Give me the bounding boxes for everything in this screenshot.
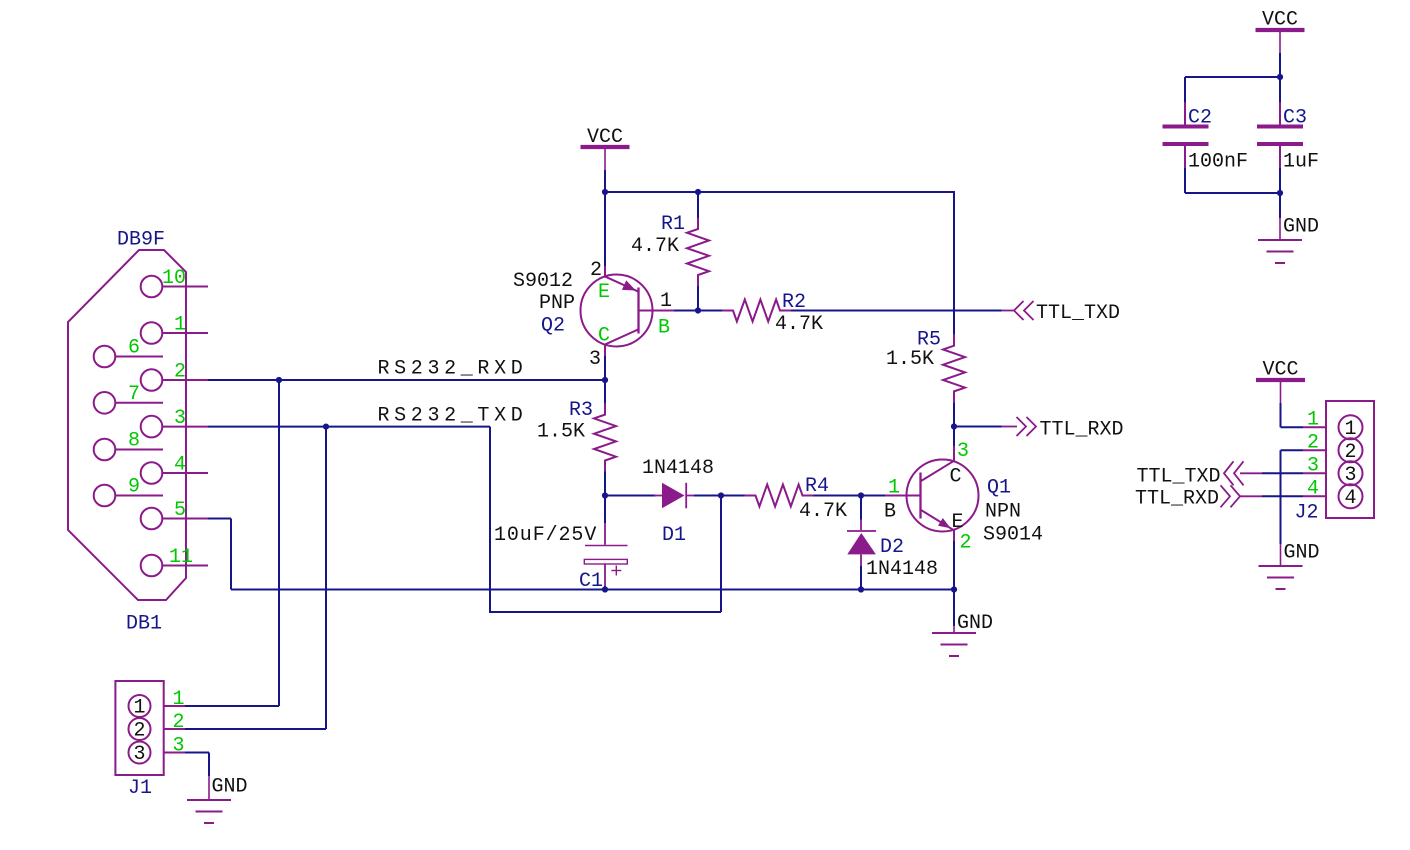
wire RS232_RXD	[208, 379, 605, 381]
svg-text:3: 3	[173, 735, 185, 758]
svg-text:Q1: Q1	[987, 477, 1011, 500]
wire Q2 emitter to rail	[604, 192, 606, 266]
junction	[695, 189, 701, 195]
svg-text:1.5K: 1.5K	[886, 348, 934, 371]
svg-text:GND: GND	[1284, 542, 1320, 565]
J1 pin 3	[129, 742, 151, 764]
TTL_RXD J2 lead	[1240, 495, 1262, 497]
svg-text:VCC: VCC	[1262, 9, 1298, 32]
svg-text:TTL_TXD: TTL_TXD	[1136, 466, 1220, 489]
svg-text:R3: R3	[569, 399, 593, 422]
svg-text:1N4148: 1N4148	[866, 558, 938, 581]
Q1 base pin	[885, 495, 907, 497]
Q1 emitter stub	[953, 530, 955, 543]
capacitor C3 (1uF)	[1279, 102, 1281, 125]
svg-text:TTL_TXD: TTL_TXD	[1036, 302, 1120, 325]
junction	[602, 377, 608, 383]
svg-text:4.7K: 4.7K	[799, 500, 847, 523]
svg-text:C: C	[598, 325, 610, 348]
svg-text:1: 1	[888, 477, 900, 500]
wire TTL_RXD stub	[954, 426, 1002, 428]
svg-text:1: 1	[1307, 409, 1319, 432]
svg-text:RS232_TXD: RS232_TXD	[378, 405, 528, 428]
wire R1 bottom lead	[697, 286, 699, 311]
wire D2 to ground rail	[860, 566, 862, 590]
wire Q1 emitter to ground rail	[953, 541, 955, 590]
transistor Q1 (S9014 NPN)	[907, 460, 979, 532]
wire R1 top lead	[697, 192, 699, 218]
svg-text:3: 3	[1307, 455, 1319, 478]
junction	[695, 307, 701, 313]
resistor R3	[594, 404, 616, 472]
DB1 pin 3	[141, 416, 163, 438]
wire Q2 collector node to R3	[604, 380, 606, 404]
ground (J2)	[1280, 544, 1282, 566]
wire R5 node to Q1 collector	[953, 427, 955, 447]
junction	[323, 424, 329, 430]
DB1 pin 7	[94, 392, 116, 414]
svg-text:1: 1	[660, 290, 672, 313]
junction	[602, 492, 608, 498]
TTL_TXD J2 lead	[1240, 472, 1262, 474]
connector J2 body	[1326, 401, 1374, 518]
svg-text:GND: GND	[957, 612, 993, 635]
DB1 pin 5	[141, 508, 163, 530]
wire D1 to R4 node	[694, 495, 721, 497]
wire J1 pin2 to TXD	[185, 728, 326, 730]
svg-text:3: 3	[133, 743, 145, 766]
svg-text:Q2: Q2	[541, 315, 565, 338]
wire R3 bottom lead	[604, 472, 606, 496]
svg-text:8: 8	[128, 430, 140, 453]
svg-text:NPN: NPN	[985, 501, 1021, 524]
wire J1 pin3 to GND	[185, 752, 209, 754]
svg-text:4: 4	[1307, 478, 1319, 501]
svg-text:C2: C2	[1188, 107, 1212, 130]
diode D1 (1N4148)	[654, 495, 662, 497]
svg-text:TTL_RXD: TTL_RXD	[1040, 419, 1124, 442]
svg-text:3: 3	[174, 407, 186, 430]
junction	[1277, 74, 1283, 80]
transistor Q2 (S9012 PNP)	[581, 275, 653, 347]
wire node down to D2	[860, 496, 862, 520]
J2 pin 1	[1339, 415, 1363, 439]
svg-text:2: 2	[173, 711, 185, 734]
power VCC (J2)	[1256, 378, 1305, 382]
ground (C2/C3)	[1279, 218, 1281, 240]
wire VCC stub	[604, 170, 606, 192]
wire VCC down	[1279, 53, 1281, 77]
wire Q2 collector down	[604, 356, 606, 380]
svg-text:7: 7	[128, 383, 140, 406]
Q2 base pin	[653, 310, 675, 312]
junction	[602, 189, 608, 195]
Q2 pin 2 stub	[604, 266, 606, 278]
svg-text:1: 1	[133, 697, 145, 720]
wire Q2 base to R1/R2 node	[674, 310, 698, 312]
svg-text:5: 5	[174, 499, 186, 522]
svg-text:3: 3	[957, 440, 969, 463]
wire Q1 gnd stub	[953, 590, 955, 627]
ground (J1)	[208, 776, 210, 800]
port TTL_TXD arrow	[1014, 301, 1034, 320]
svg-text:VCC: VCC	[587, 126, 623, 149]
svg-text:VCC: VCC	[1262, 359, 1298, 382]
svg-text:GND: GND	[212, 776, 248, 799]
wire C2 branch bottom	[1184, 168, 1186, 193]
svg-text:1.5K: 1.5K	[537, 421, 585, 444]
wire rail corner to R5	[953, 191, 955, 335]
wire node to D1	[605, 495, 656, 497]
svg-text:DB9F: DB9F	[117, 229, 165, 252]
svg-text:RS232_RXD: RS232_RXD	[378, 358, 528, 381]
svg-text:3: 3	[589, 348, 601, 371]
Q1 collector stub	[953, 446, 955, 461]
DB1 pin 4	[141, 462, 163, 484]
wire C1 to ground rail	[604, 586, 606, 590]
ground (below Q1)	[953, 626, 955, 633]
wire R4 to D2 node	[814, 495, 862, 497]
junction	[1277, 190, 1283, 196]
Q2 pin 3 stub	[604, 345, 606, 357]
resistor R2	[722, 300, 791, 322]
wire DB1 pin5 to corner	[208, 518, 231, 520]
svg-text:10: 10	[162, 267, 186, 290]
wire C3 branch top	[1279, 77, 1281, 102]
svg-text:J2: J2	[1295, 502, 1319, 525]
J2 pin 4	[1339, 484, 1363, 508]
wire TXD vertical jog	[489, 427, 491, 612]
svg-text:C: C	[950, 466, 962, 489]
wire R5 bottom lead	[953, 402, 955, 426]
junction	[276, 377, 282, 383]
capacitor C1 (10uF/25V)	[604, 523, 606, 545]
resistor R1	[687, 218, 709, 286]
svg-text:C3: C3	[1283, 107, 1307, 130]
svg-text:DB1: DB1	[126, 613, 162, 636]
J1 pin 2	[129, 718, 151, 740]
port TTL_RXD arrow	[1017, 417, 1037, 436]
wire TXD up to D1 node	[720, 496, 722, 613]
svg-text:4.7K: 4.7K	[631, 235, 679, 258]
J1 pin 1	[129, 695, 151, 717]
wire C3 branch bottom	[1279, 168, 1281, 193]
DB1 pin 11	[141, 555, 163, 577]
svg-text:J1: J1	[128, 777, 152, 800]
svg-text:4.7K: 4.7K	[775, 313, 823, 336]
junction	[602, 586, 608, 592]
DB1 pin 8	[94, 439, 116, 461]
svg-text:2: 2	[590, 259, 602, 282]
svg-text:S9014: S9014	[983, 524, 1043, 547]
svg-text:PNP: PNP	[539, 292, 575, 315]
svg-text:TTL_RXD: TTL_RXD	[1135, 488, 1219, 511]
connector DB1 DB9F outline	[68, 250, 186, 600]
DB1 pin 9	[94, 485, 116, 507]
svg-text:E: E	[598, 281, 610, 304]
svg-text:100nF: 100nF	[1188, 151, 1248, 174]
wire ground rail	[231, 589, 954, 591]
port TTL_TXD arrow (J2)	[1224, 461, 1244, 485]
svg-text:2: 2	[1307, 432, 1319, 455]
svg-text:1: 1	[173, 688, 185, 711]
junction	[951, 423, 957, 429]
TTL_TXD port lead	[1002, 310, 1015, 312]
svg-text:11: 11	[169, 546, 193, 569]
connector J1 body	[115, 681, 163, 775]
svg-text:D2: D2	[880, 536, 904, 559]
svg-text:S9012: S9012	[513, 270, 573, 293]
resistor R5	[943, 335, 965, 403]
wire C2 branch top	[1185, 76, 1280, 78]
junction	[951, 586, 957, 592]
svg-text:1uF: 1uF	[1283, 151, 1319, 174]
svg-text:2: 2	[960, 532, 972, 555]
svg-text:R1: R1	[661, 213, 685, 236]
wire D2 node to Q1 base	[861, 495, 885, 497]
capacitor C2 (100nF)	[1184, 102, 1186, 125]
DB1 pin 6	[94, 346, 116, 368]
power VCC (top right)	[1256, 28, 1305, 32]
svg-text:D1: D1	[662, 524, 686, 547]
svg-text:4: 4	[174, 454, 186, 477]
wire to GND	[1279, 193, 1281, 218]
J2 pin 3	[1339, 461, 1363, 485]
junction	[718, 492, 724, 498]
junction	[858, 492, 864, 498]
wire node down to C1	[604, 496, 606, 524]
svg-text:1: 1	[174, 314, 186, 337]
svg-text:B: B	[884, 501, 896, 524]
wire VCC to J2 pin1	[1280, 403, 1282, 427]
svg-text:9: 9	[128, 476, 140, 499]
DB1 pin 2	[141, 369, 163, 391]
wire D1 node to R4	[721, 495, 745, 497]
wire TXD bottom jog	[489, 611, 721, 613]
power VCC (top middle)	[581, 145, 630, 149]
DB1 pin 1	[141, 322, 163, 344]
wire RS232_TXD	[208, 426, 490, 428]
wire TTL_RXD to J2 pin4	[1262, 495, 1303, 497]
wire R2 to TTL_TXD port	[791, 310, 1002, 312]
wire pin5 corner down	[230, 519, 232, 590]
svg-text:GND: GND	[1283, 216, 1319, 239]
wire J2 pin2 to GND	[1281, 449, 1304, 451]
wire top rail VCC	[605, 191, 954, 193]
svg-text:2: 2	[174, 361, 186, 384]
junction	[858, 586, 864, 592]
svg-text:6: 6	[128, 337, 140, 360]
resistor R4	[745, 485, 814, 507]
wire TTL_TXD to J2 pin3	[1262, 472, 1303, 474]
TTL_RXD port lead	[1002, 426, 1018, 428]
svg-text:2: 2	[133, 720, 145, 743]
svg-text:10uF/25V: 10uF/25V	[494, 524, 597, 547]
svg-text:4: 4	[1344, 487, 1356, 510]
wire J1 pin1 to RXD	[185, 705, 279, 707]
svg-text:1N4148: 1N4148	[642, 457, 714, 480]
svg-text:B: B	[658, 317, 670, 340]
J2 pin 2	[1339, 438, 1363, 462]
port TTL_RXD arrow (J2)	[1221, 485, 1241, 507]
diode D2 (1N4148)	[860, 520, 862, 531]
DB1 pin 10	[141, 276, 163, 298]
wire base node to R2	[698, 310, 722, 312]
